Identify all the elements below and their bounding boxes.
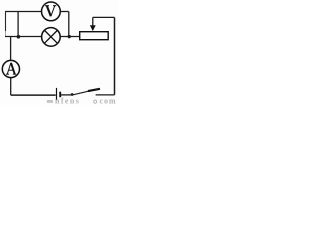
lamp cross diagonal 2 bbox=[45, 31, 58, 44]
wire: lamp right horizontal to rheostat bbox=[60, 36, 80, 38]
rheostat wiper arrowhead bbox=[90, 25, 96, 31]
wire: top right horizontal (wiper feed) bbox=[93, 16, 115, 18]
node junction dot right bbox=[68, 35, 71, 38]
battery long plate bbox=[56, 88, 58, 100]
wire: ammeter top vertical bbox=[10, 37, 12, 61]
svg-text:nfens: nfens bbox=[55, 96, 80, 105]
watermark block mark bbox=[47, 100, 53, 103]
ammeter A1 circle bbox=[2, 60, 19, 77]
wire: voltmeter left parallel vertical bbox=[17, 12, 19, 37]
voltmeter label V bbox=[45, 6, 56, 17]
wire: left outer vertical bbox=[5, 12, 7, 32]
ammeter label A bbox=[6, 63, 16, 74]
rheostat wiper stem bbox=[92, 17, 94, 25]
wire: top horizontal from left corner to voltmeter bbox=[5, 11, 41, 13]
battery short thick plate bbox=[59, 92, 61, 98]
svg-text:com: com bbox=[100, 96, 117, 105]
wire: ammeter bottom vertical bbox=[10, 78, 12, 96]
wire: voltmeter right short horizontal bbox=[60, 11, 69, 13]
voltmeter U1 circle bbox=[42, 2, 61, 21]
wire: voltmeter right vertical down bbox=[68, 12, 70, 37]
rheostat R1 body rectangle bbox=[80, 32, 109, 40]
wire: right outer vertical bbox=[114, 17, 116, 95]
wire: battery to switch bbox=[61, 94, 72, 96]
switch blade bbox=[73, 91, 91, 95]
wire: lamp left horizontal bbox=[5, 36, 41, 38]
node junction dot left bbox=[17, 35, 21, 39]
wire: switch right contact horizontal bbox=[96, 94, 115, 96]
switch handle blob bbox=[88, 89, 100, 91]
wire: left outer vertical lower faint part bbox=[5, 31, 7, 36]
watermark circle punctuation bbox=[94, 100, 97, 103]
lamp L1 circle bbox=[42, 28, 61, 47]
wire: bottom horizontal to battery bbox=[11, 94, 56, 96]
lamp cross diagonal 1 bbox=[45, 31, 58, 44]
switch S1 pivot dot bbox=[71, 93, 74, 96]
